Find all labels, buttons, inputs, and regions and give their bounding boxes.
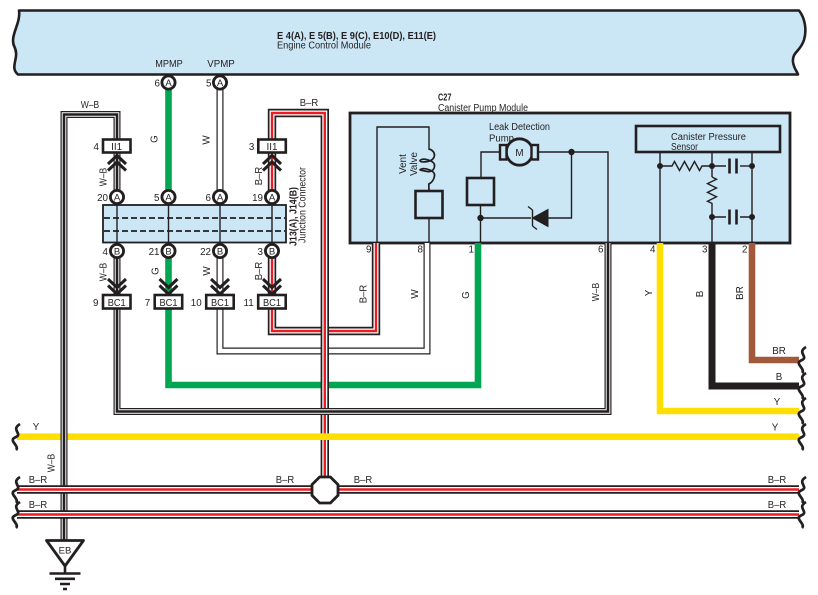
- vent valve body box: [416, 191, 443, 218]
- terminal 3B junction: [265, 244, 278, 257]
- wire W-B junction B4 to BC1-9: [114, 257, 121, 295]
- splice octagon junction: [312, 477, 338, 503]
- wire BR module pin 2 to right edge: [752, 243, 799, 360]
- terminal 4B junction: [110, 244, 123, 257]
- connector BC1-10: [206, 295, 234, 309]
- terminal 5A ECM: [213, 76, 226, 89]
- svg-text:Y: Y: [774, 397, 781, 408]
- wire B-R junction B3 to BC1-11: [268, 257, 276, 295]
- svg-text:A: A: [114, 193, 121, 204]
- svg-text:Valve: Valve: [409, 152, 420, 176]
- svg-text:B: B: [114, 247, 120, 258]
- svg-text:W–B: W–B: [99, 167, 110, 186]
- svg-text:C27: C27: [438, 93, 452, 104]
- svg-text:W–B: W–B: [99, 262, 110, 281]
- svg-text:5: 5: [206, 79, 212, 90]
- sensor vertical to pin 4: [659, 152, 661, 243]
- wire W ECM VPMP down to junction A6: [217, 88, 224, 191]
- svg-text:B–R: B–R: [254, 262, 265, 281]
- svg-text:7: 7: [145, 298, 150, 309]
- svg-text:2: 2: [742, 245, 747, 256]
- svg-text:W: W: [410, 289, 421, 299]
- svg-text:II1: II1: [111, 142, 122, 153]
- svg-text:M: M: [515, 148, 523, 159]
- svg-text:4: 4: [650, 245, 656, 256]
- torn mark Y pin4 right: [799, 398, 806, 424]
- svg-text:Y: Y: [644, 289, 655, 296]
- node junction dot: [568, 149, 574, 155]
- wire B module pin 3 to right edge: [712, 243, 799, 386]
- wire Y module pin 4 to right edge: [660, 243, 799, 411]
- svg-text:6: 6: [155, 79, 161, 90]
- svg-text:9: 9: [93, 298, 98, 309]
- svg-text:W: W: [202, 135, 213, 145]
- svg-text:B–R: B–R: [254, 167, 265, 186]
- capacitor C2 bottom: [730, 210, 737, 225]
- svg-text:8: 8: [418, 245, 424, 256]
- svg-text:20: 20: [97, 193, 108, 204]
- ground hatching: [64, 566, 67, 573]
- node dot sensor pin3 top: [709, 163, 715, 169]
- wire W-B staircase BC1-9 to module pin 6: [117, 243, 608, 412]
- wire B-R II1-3 loop over and down to splice: [272, 113, 325, 478]
- torn mark B-R2 right: [799, 502, 806, 528]
- connector BC1-11: [258, 295, 286, 309]
- chevron arrows down into BC1-7: [160, 279, 178, 294]
- svg-text:4: 4: [103, 247, 109, 258]
- terminal 5A junction: [162, 190, 175, 203]
- svg-text:4: 4: [94, 142, 100, 153]
- torn mark B-R1 right: [799, 477, 806, 503]
- svg-text:B: B: [217, 247, 223, 258]
- wire W-B II1-4 to junction A20: [114, 152, 121, 191]
- torn mark Y left: [13, 424, 20, 450]
- svg-text:G: G: [151, 267, 162, 275]
- svg-text:22: 22: [200, 247, 211, 258]
- svg-text:B–R: B–R: [29, 475, 48, 486]
- svg-text:3: 3: [249, 142, 255, 153]
- svg-text:6: 6: [598, 245, 604, 256]
- sensor top rail with resistor R1: [660, 162, 726, 171]
- wire W staircase BC1-10 to module pin 8: [220, 243, 427, 351]
- svg-text:B: B: [165, 247, 171, 258]
- svg-text:W–B: W–B: [47, 453, 58, 472]
- node dot sensor pin3 bottom: [709, 214, 715, 220]
- sensor vertical to pin 3: [711, 152, 713, 243]
- motor M leak detection pump: [506, 139, 532, 165]
- svg-text:19: 19: [252, 193, 263, 204]
- svg-text:BR: BR: [772, 346, 786, 357]
- svg-text:Junction Connector: Junction Connector: [298, 166, 309, 243]
- svg-text:Canister Pump Module: Canister Pump Module: [438, 103, 528, 114]
- svg-text:B–R: B–R: [354, 475, 373, 486]
- chevron arrows down into BC1-9: [108, 279, 126, 294]
- connector II1 right (3): [258, 140, 286, 153]
- connector BC1-9: [103, 295, 131, 309]
- svg-text:A: A: [165, 78, 172, 89]
- svg-text:Y: Y: [33, 422, 40, 433]
- capacitor C1 top: [730, 159, 737, 174]
- svg-text:3: 3: [258, 247, 264, 258]
- svg-text:EB: EB: [59, 546, 72, 557]
- module C27 Canister Pump Module box: [350, 113, 790, 243]
- wire motor right to pin 6: [538, 152, 608, 243]
- svg-text:W–B: W–B: [591, 282, 602, 301]
- chevron arrows up into II1 right: [263, 156, 281, 171]
- wire B-R II1-3 to junction A19: [268, 152, 276, 191]
- terminal 19A junction: [265, 190, 278, 203]
- svg-text:Vent: Vent: [398, 154, 409, 174]
- terminal 22B junction: [213, 244, 226, 257]
- resistor R2 vertical: [708, 177, 717, 205]
- svg-text:W: W: [202, 266, 213, 276]
- svg-text:A: A: [217, 193, 224, 204]
- svg-text:G: G: [461, 291, 472, 299]
- svg-text:B–R: B–R: [768, 500, 787, 511]
- sensor vertical to pin 2: [751, 152, 753, 243]
- node dot sensor pin2 top: [749, 163, 755, 169]
- wire motor left to driver box: [481, 152, 500, 178]
- svg-text:BR: BR: [735, 286, 746, 300]
- svg-text:B–R: B–R: [768, 475, 787, 486]
- svg-text:6: 6: [206, 193, 212, 204]
- svg-text:BC1: BC1: [263, 298, 281, 309]
- wire G ECM MPMP down to junction A5: [165, 88, 172, 191]
- wire B-R staircase BC1-11 to module pin 9: [272, 243, 376, 331]
- svg-text:Leak Detection: Leak Detection: [489, 122, 550, 133]
- svg-text:Engine Control Module: Engine Control Module: [277, 41, 372, 52]
- svg-text:A: A: [269, 193, 276, 204]
- ground EB triangle: [47, 541, 84, 567]
- torn mark BR right: [799, 347, 806, 373]
- connector II1 left (4): [103, 140, 131, 153]
- svg-text:B: B: [776, 372, 783, 383]
- svg-text:W–B: W–B: [81, 100, 100, 111]
- node junction dot: [477, 215, 483, 221]
- svg-text:Y: Y: [772, 423, 779, 434]
- wire diode to motor right branch: [548, 152, 572, 218]
- svg-text:1: 1: [469, 245, 474, 256]
- svg-text:A: A: [165, 193, 172, 204]
- svg-text:BC1: BC1: [108, 298, 126, 309]
- svg-text:B: B: [695, 290, 706, 297]
- terminal 21B junction: [162, 244, 175, 257]
- wire box to pin 8: [428, 218, 430, 243]
- node dot sensor pin4 rail: [657, 163, 663, 169]
- wire Y full width: [17, 433, 799, 440]
- torn mark Y full right: [799, 424, 806, 450]
- svg-text:VPMP: VPMP: [207, 59, 235, 70]
- svg-text:B–R: B–R: [276, 475, 295, 486]
- svg-text:B–R: B–R: [29, 500, 48, 511]
- vent valve coil L: [420, 149, 435, 191]
- wire W junction B22 to BC1-10: [217, 257, 224, 295]
- wire G staircase BC1-7 to module pin 1: [169, 243, 479, 385]
- svg-text:5: 5: [154, 193, 160, 204]
- svg-text:Sensor: Sensor: [671, 142, 699, 153]
- wire B-R horizontal 1: [17, 485, 799, 493]
- ECM band E4/E5/E9/E10/E11 Engine Control Module: [13, 11, 805, 75]
- svg-text:MPMP: MPMP: [155, 59, 183, 70]
- zener diode D: [533, 210, 549, 227]
- chevron arrows down into BC1-10: [211, 279, 229, 294]
- terminal 6A junction: [213, 190, 226, 203]
- svg-text:BC1: BC1: [160, 298, 178, 309]
- svg-text:G: G: [150, 135, 161, 143]
- chevron arrows up into II1 left: [108, 156, 126, 171]
- svg-text:BC1: BC1: [211, 298, 229, 309]
- terminal 6A ECM: [162, 76, 175, 89]
- svg-text:B–R: B–R: [300, 98, 319, 109]
- junction connector J13(A) J14(B) box: [103, 205, 286, 243]
- svg-text:9: 9: [366, 245, 371, 256]
- wire G junction B21 to BC1-7: [165, 257, 172, 295]
- wire node to zener diode: [481, 217, 532, 219]
- svg-text:21: 21: [149, 247, 160, 258]
- connector BC1-7: [155, 295, 183, 309]
- torn mark B right: [799, 373, 806, 399]
- terminal 20A junction: [110, 190, 123, 203]
- svg-text:Pump: Pump: [489, 134, 515, 145]
- svg-text:B–R: B–R: [359, 285, 370, 304]
- chevron arrows down into BC1-11: [263, 279, 281, 294]
- torn mark B-R1 left: [13, 477, 20, 503]
- svg-text:10: 10: [191, 298, 202, 309]
- torn mark B-R2 left: [13, 502, 20, 528]
- node dot sensor pin2 bottom: [749, 214, 755, 220]
- wire W-B II1-4 loop left and down to ground EB: [64, 115, 117, 541]
- svg-text:11: 11: [244, 298, 254, 309]
- driver box: [467, 178, 494, 205]
- sensor bottom rail: [712, 216, 752, 218]
- wire driver box to pin 1: [480, 205, 482, 243]
- wire B-R horizontal 2: [17, 510, 799, 518]
- svg-text:3: 3: [702, 245, 708, 256]
- vent valve internal wiring (pin 9 up and over to coil): [377, 127, 429, 243]
- svg-text:II1: II1: [267, 142, 278, 153]
- svg-text:B: B: [269, 247, 275, 258]
- svg-text:A: A: [217, 78, 224, 89]
- canister pressure sensor box: [636, 126, 780, 152]
